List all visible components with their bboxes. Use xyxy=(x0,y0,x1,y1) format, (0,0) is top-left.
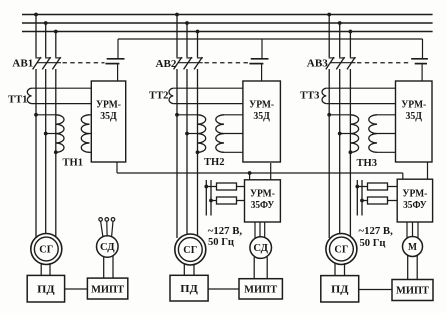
wire: ТН1 secondary leads to УРМ-35Д xyxy=(90,115,92,153)
resistor R2b xyxy=(217,197,237,204)
wire phase B feeder section 2 xyxy=(186,23,188,235)
wire: ТН2 primary taps to phases xyxy=(177,115,198,134)
synchronous generator СГ section 2 xyxy=(175,234,206,265)
wire: dashed mechanical link АВ3 to drive xyxy=(357,62,410,64)
node: bus tap junctions section 2 xyxy=(175,13,199,34)
wire: М3 to МИПТ xyxy=(408,255,418,280)
svg-text:ТН3: ТН3 xyxy=(357,158,378,169)
svg-text:УРМ-: УРМ- xyxy=(96,99,121,110)
svg-text:35ФУ: 35ФУ xyxy=(251,200,275,211)
wire phase C feeder section 3 xyxy=(349,32,351,239)
bus L2 (middle phase busbar) xyxy=(22,22,433,24)
svg-text:50 Гц: 50 Гц xyxy=(208,237,234,248)
svg-text:~127 В,: ~127 В, xyxy=(359,226,394,237)
wire: СД2 to МИПТ xyxy=(254,257,267,279)
svg-text:М: М xyxy=(408,242,417,253)
transformer ТН3 primary winding xyxy=(350,115,358,153)
node: link line to УРМ-35ФУ2 xyxy=(248,171,252,180)
prime mover ПД section 1 xyxy=(27,275,64,302)
svg-text:35Д: 35Д xyxy=(253,111,270,122)
label ~127 В, 50 Гц section 3 xyxy=(359,226,394,249)
svg-text:СД: СД xyxy=(253,243,268,254)
transformer ТН2 secondary winding xyxy=(216,115,224,153)
svg-text:УРМ-: УРМ- xyxy=(402,189,427,200)
wire: УРМ-35ФУ2 to machine below xyxy=(255,222,265,238)
svg-text:ПД: ПД xyxy=(37,284,55,296)
wire: УРМ-35Д1 output down to link line xyxy=(116,162,118,173)
supply bars ~127V section 3 xyxy=(357,180,362,216)
machine СД section 1 xyxy=(97,236,119,258)
circuit breaker АВ3 (three poles) xyxy=(326,57,356,69)
wire: ТН1 primary taps to phases xyxy=(36,115,56,134)
svg-text:МИПТ: МИПТ xyxy=(91,284,124,295)
resistor R3b xyxy=(368,197,388,204)
svg-text:СГ: СГ xyxy=(39,245,53,256)
converter МИПТ section 2 xyxy=(239,279,282,299)
wire: ТН3 secondary leads to УРМ-35Д xyxy=(377,115,396,153)
svg-text:СГ: СГ xyxy=(334,245,348,256)
wire: СГ3 to ПД xyxy=(335,263,345,275)
svg-text:МИПТ: МИПТ xyxy=(244,285,277,296)
frequency control unit УРМ-35ФУ section 2 xyxy=(245,180,281,222)
svg-text:ТТ3: ТТ3 xyxy=(300,90,320,101)
wire phase B feeder section 1 xyxy=(45,23,47,235)
resistor R3a xyxy=(368,183,388,190)
supply bars ~127V section 2 xyxy=(206,180,211,216)
svg-text:ПД: ПД xyxy=(331,284,349,296)
node: bus tap junctions section 3 xyxy=(327,13,352,34)
svg-text:АВ1: АВ1 xyxy=(12,58,33,69)
svg-text:35Д: 35Д xyxy=(406,111,423,122)
node: supply bar junctions section 2 xyxy=(204,185,213,203)
label ~127 В, 50 Гц section 2 xyxy=(208,226,243,248)
node: supply bar junctions section 3 xyxy=(355,185,364,203)
wire: ПД1 to МИПТ1 xyxy=(65,288,88,290)
svg-text:50 Гц: 50 Гц xyxy=(360,238,386,249)
transformer ТН1 secondary winding xyxy=(81,115,89,153)
node: ТН3 tap junctions xyxy=(327,113,352,154)
transformer ТН3 secondary winding xyxy=(369,115,377,153)
svg-text:ТТ2: ТТ2 xyxy=(149,90,169,101)
svg-text:35ФУ: 35ФУ xyxy=(403,200,427,211)
wire phase A feeder section 1 xyxy=(35,15,37,239)
svg-text:35Д: 35Д xyxy=(100,111,117,122)
machine СД section 2 xyxy=(250,237,272,259)
wire: УРМ-35Д2 output down to УРМ-35ФУ2 xyxy=(270,163,272,180)
prime mover ПД section 3 xyxy=(321,276,359,302)
circuit breaker АВ2 (three poles) xyxy=(174,57,203,69)
svg-text:ТТ1: ТТ1 xyxy=(8,95,27,106)
svg-text:~127 В,: ~127 В, xyxy=(208,226,243,237)
breaker drive plates of АВ1 xyxy=(105,39,124,81)
converter МИПТ section 3 xyxy=(392,280,433,301)
wire: ПД3 to МИПТ3 xyxy=(359,289,392,291)
synchronous generator СГ section 1 xyxy=(31,234,62,265)
wire phase A feeder section 3 xyxy=(328,15,330,239)
wire: control line linking breaker drives AB1-AB3 xyxy=(118,38,423,40)
wire: ТН2 secondary leads to УРМ-35Д xyxy=(224,115,243,153)
svg-text:УРМ-: УРМ- xyxy=(250,189,275,200)
svg-text:УРМ-: УРМ- xyxy=(249,99,274,110)
wire: dashed mechanical link АВ2 to drive xyxy=(205,62,249,64)
open terminals above СД1 xyxy=(99,218,115,222)
wire: terminals down to СД1 xyxy=(101,221,113,236)
wire: СГ2 to ПД xyxy=(184,264,194,276)
svg-text:СД: СД xyxy=(100,242,115,253)
regulator unit УРМ-35Д section 1 xyxy=(91,81,125,162)
wire phase A feeder section 2 xyxy=(176,15,178,239)
regulator unit УРМ-35Д section 2 xyxy=(243,81,281,162)
resistor R2a xyxy=(217,183,237,190)
svg-text:СГ: СГ xyxy=(183,245,197,256)
converter МИПТ section 1 xyxy=(87,278,127,299)
wire: supply to resistors section 2 xyxy=(206,187,244,201)
wire: СД1 to МИПТ xyxy=(104,256,113,278)
wire: common link from УРМ-35Д units to УРМ-35ФУ units xyxy=(117,172,403,174)
transformer ТН1 primary winding xyxy=(56,115,64,153)
machine М section 3 xyxy=(403,237,423,257)
svg-text:ТН1: ТН1 xyxy=(63,158,84,169)
wire: СГ1 to ПД xyxy=(41,263,50,275)
bus L3 (bottom phase busbar) xyxy=(22,31,433,33)
wire: УРМ-35ФУ3 to machine below xyxy=(407,222,418,238)
svg-text:ПД: ПД xyxy=(180,283,198,295)
wire phase C feeder section 1 xyxy=(55,32,57,239)
node: ТН2 tap junctions xyxy=(175,113,199,154)
circuit breaker АВ1 (three poles) xyxy=(33,57,62,69)
wire: ПД2 to МИПТ2 xyxy=(208,288,239,290)
svg-text:УРМ-: УРМ- xyxy=(401,99,426,110)
svg-text:ТН2: ТН2 xyxy=(204,157,225,168)
prime mover ПД section 2 xyxy=(170,275,208,301)
current transformer ТТ1 xyxy=(27,88,91,103)
bus L1 (top phase busbar) xyxy=(22,14,433,16)
current transformer ТТ2 xyxy=(169,88,243,103)
frequency control unit УРМ-35ФУ section 3 xyxy=(397,179,432,222)
breaker drive plates of АВ3 xyxy=(411,39,428,81)
current transformer ТТ3 xyxy=(322,88,396,103)
wire: link line drop to УРМ-35ФУ3 xyxy=(402,173,404,179)
wire: ТН3 primary taps to phases xyxy=(329,115,350,134)
wire: supply to resistors section 3 xyxy=(357,187,397,201)
node: ТН1 tap junctions xyxy=(34,113,58,154)
wire: УРМ-35Д3 output down to УРМ-35ФУ3 xyxy=(427,162,429,179)
svg-text:МИПТ: МИПТ xyxy=(396,286,429,297)
wire phase C feeder section 2 xyxy=(197,32,199,239)
node: bus tap junctions section 1 xyxy=(34,13,58,34)
transformer ТН2 primary winding xyxy=(198,115,206,153)
wire phase B feeder section 3 xyxy=(339,23,341,235)
svg-text:АВ2: АВ2 xyxy=(156,59,177,70)
wire: dashed mechanical link АВ1 to drive xyxy=(63,62,105,64)
synchronous generator СГ section 3 xyxy=(326,234,357,265)
regulator unit УРМ-35Д section 3 xyxy=(396,81,433,162)
svg-text:АВ3: АВ3 xyxy=(307,59,328,70)
breaker drive plates of АВ2 xyxy=(249,39,268,81)
